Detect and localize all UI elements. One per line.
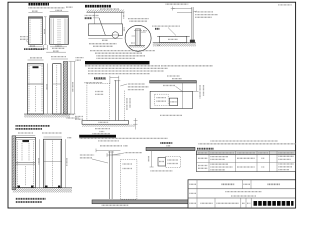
dim between C views xyxy=(39,139,41,188)
right vertical dims B xyxy=(70,62,72,115)
caption D row1 xyxy=(89,43,117,45)
ground line C xyxy=(13,187,72,189)
wall line down G xyxy=(181,83,183,109)
model number line1 xyxy=(225,191,262,193)
label above dashed unit xyxy=(85,82,103,84)
long note row H xyxy=(80,137,168,139)
vertical dim left from ceiling xyxy=(93,12,95,24)
table label applicable heaters xyxy=(197,148,214,150)
scale cell xyxy=(217,202,240,204)
section F anchor position label xyxy=(94,77,106,79)
reference mark 2 xyxy=(158,44,161,46)
vertical dim right from ceiling xyxy=(120,12,122,24)
caption B line1 xyxy=(16,125,51,127)
foundation base F xyxy=(82,121,129,125)
label 作成 xyxy=(190,202,197,204)
ceiling hatch band xyxy=(87,10,125,13)
section A header title xyxy=(29,3,50,6)
section B dim labels above xyxy=(30,57,42,59)
dim width above front view xyxy=(28,12,42,14)
junction circle A xyxy=(112,32,118,38)
title block xyxy=(188,180,296,208)
section D header title xyxy=(85,5,111,8)
exhaust box H2 xyxy=(158,158,165,167)
dashed unit outline F xyxy=(87,83,110,120)
left leader note F xyxy=(75,116,83,118)
caption H2 xyxy=(151,170,173,172)
bolt count label right xyxy=(52,47,65,49)
wall stand pipe H xyxy=(109,151,111,199)
section A subtitle note xyxy=(29,7,65,9)
wall hatch strip right of B2 xyxy=(63,62,67,115)
heater front view B1 xyxy=(28,64,44,115)
section H2 wall label xyxy=(160,142,172,144)
right label H xyxy=(125,152,142,154)
right leader labels F xyxy=(120,84,127,86)
note row right of bar D xyxy=(161,65,213,67)
anchor label row above H xyxy=(100,145,122,147)
label 名称 xyxy=(190,183,197,185)
ground line B xyxy=(24,113,70,115)
front view rect A1 xyxy=(28,17,42,45)
rows under black bar row4 xyxy=(88,73,150,75)
dim width above side view xyxy=(50,11,69,13)
right lower dim label xyxy=(123,28,125,32)
bottom dim lines A xyxy=(28,46,42,48)
section H top centered note xyxy=(100,131,105,133)
section C dim labels above xyxy=(18,132,33,134)
side view rect A2 xyxy=(50,16,69,45)
small label top right C xyxy=(68,137,72,139)
clearance dim box xyxy=(88,24,122,36)
drawing number label top right xyxy=(278,4,291,6)
caption B line2 xyxy=(16,128,43,130)
model number line2 xyxy=(231,195,256,197)
left bracket labels H xyxy=(80,154,94,156)
value 外観図 xyxy=(222,183,235,185)
note row2 H xyxy=(98,140,119,142)
label 型式 xyxy=(190,192,197,194)
border frame xyxy=(8,2,296,208)
note paragraph row4 xyxy=(97,57,136,59)
exhaust box G xyxy=(169,98,177,105)
anchor bolt detail in circle xyxy=(135,29,140,46)
block range label xyxy=(152,25,179,27)
reference mark xyxy=(155,28,159,30)
ground line E xyxy=(153,42,196,44)
caption below H xyxy=(102,204,129,206)
table note row1 xyxy=(199,143,297,145)
vertical dim H2 xyxy=(151,151,153,167)
height dim between views xyxy=(44,17,46,45)
dim right G xyxy=(196,81,198,92)
right vertical dim C xyxy=(64,139,66,188)
small cell b xyxy=(247,202,250,204)
caption C line2 xyxy=(16,201,42,203)
wall note above strip B xyxy=(76,57,84,59)
dim between B views xyxy=(47,64,49,115)
base labels right B xyxy=(62,114,74,116)
caption D row2 xyxy=(93,45,113,47)
wall-mount side view C2 xyxy=(44,139,62,187)
plan outer rect G xyxy=(150,91,192,108)
section G wall labels xyxy=(167,75,180,77)
dashed heater box G xyxy=(155,94,169,105)
date 2023.06 xyxy=(201,202,214,204)
company name リンナイ株式会社 xyxy=(254,201,294,206)
dim H horizontal xyxy=(96,149,120,151)
dashed heater box H xyxy=(120,159,136,199)
dashed guide line F xyxy=(124,91,126,122)
lower dim under side view xyxy=(46,51,66,53)
dim to pipe top xyxy=(173,8,192,10)
center cross mark xyxy=(171,8,175,10)
black header bar H xyxy=(79,135,116,138)
gas connection leader labels xyxy=(193,11,197,12)
ground hatch under base F xyxy=(82,124,135,127)
black header bar anchor install xyxy=(85,61,150,64)
rows under black bar row2 xyxy=(88,67,168,69)
caption anchor bolt install xyxy=(24,48,44,50)
note paragraph row1 xyxy=(90,50,155,52)
concrete base E xyxy=(157,35,190,37)
stand pipe F xyxy=(115,80,117,121)
rows under black bar row1 xyxy=(85,65,160,67)
heater side view B2 xyxy=(53,64,61,114)
caption C line1 xyxy=(16,198,46,200)
note paragraph row3 xyxy=(97,55,146,57)
detail label above circle xyxy=(128,18,149,20)
value 据置台 xyxy=(268,183,281,185)
wall-mount front view C1 xyxy=(16,137,36,187)
caption below base F xyxy=(95,128,110,130)
small cell a xyxy=(242,202,245,204)
rows under black bar row3 xyxy=(88,70,164,72)
floor base gray bar H xyxy=(92,200,195,204)
anchor bolt note left xyxy=(20,36,28,38)
top dim F xyxy=(110,77,119,79)
section D unit note xyxy=(100,8,119,10)
wall section hatched strip xyxy=(12,136,16,190)
label 品名 xyxy=(244,183,251,185)
bottom dim under box xyxy=(88,38,122,40)
section E title xyxy=(166,3,189,5)
gas pipe vertical xyxy=(191,7,193,42)
ceiling clearance note rows xyxy=(85,15,99,17)
pipe foot anchor xyxy=(190,40,195,43)
rotated dim labels F xyxy=(126,98,128,110)
flue diagonal xyxy=(93,17,99,19)
table note row0 xyxy=(211,140,279,142)
detail circle xyxy=(125,25,151,51)
right vertical dim F xyxy=(135,118,137,130)
section H2 wall gray bar xyxy=(146,147,195,150)
feet C xyxy=(18,186,21,188)
section G wall gray bar xyxy=(150,81,197,84)
note paragraph row2 xyxy=(95,52,142,54)
caption G top view xyxy=(160,114,182,116)
exhaust top label G xyxy=(163,85,176,87)
dashed heater box H2 xyxy=(165,157,180,168)
applicable heater table xyxy=(197,151,296,172)
